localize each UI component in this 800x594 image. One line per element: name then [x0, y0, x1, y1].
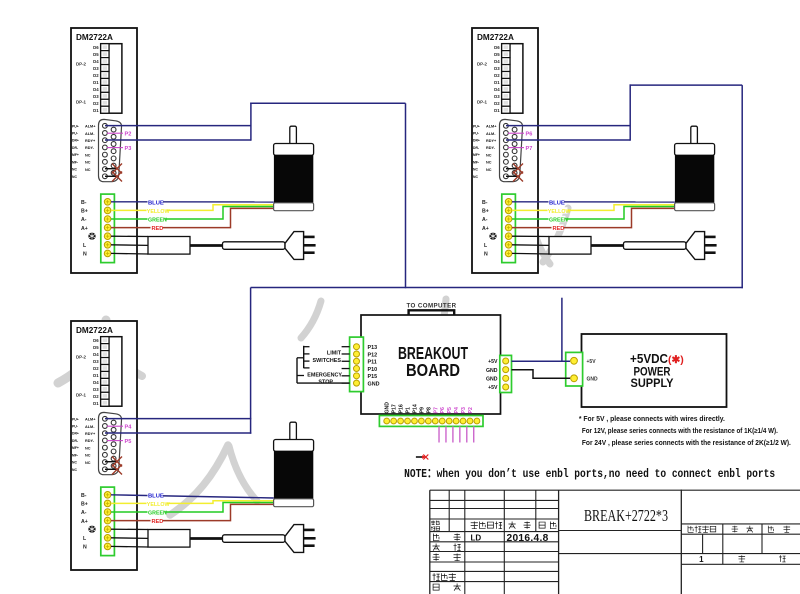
svg-text:D6: D6	[494, 45, 500, 50]
svg-text:NC: NC	[486, 168, 492, 172]
svg-text:P9: P9	[419, 407, 425, 413]
mains connector block of U1	[148, 237, 190, 255]
svg-text:DR+: DR+	[72, 139, 79, 143]
svg-text:LD: LD	[471, 534, 482, 543]
svg-text:GND: GND	[486, 377, 498, 383]
wire label GREEN of U2	[549, 216, 569, 224]
wire U1 P3 to node A	[105, 139, 251, 141]
wire node B riser	[629, 84, 631, 140]
svg-text:DP-1: DP-1	[477, 100, 488, 105]
svg-text:+5VDC(✱): +5VDC(✱)	[630, 352, 684, 366]
wire B- blue to motor M3	[111, 495, 274, 498]
svg-text:D3: D3	[494, 66, 500, 71]
svg-text:NC: NC	[85, 161, 91, 165]
svg-text:N: N	[83, 545, 87, 551]
plug P2 prong 1	[705, 236, 716, 239]
svg-text:BOARD: BOARD	[406, 360, 460, 380]
svg-text:RED: RED	[553, 226, 565, 232]
wire U1 P1 to node A	[105, 125, 251, 127]
svg-text:D4: D4	[494, 59, 500, 64]
terminal screws of TB2	[505, 199, 512, 257]
svg-text:RED: RED	[152, 226, 164, 232]
earth ground symbol of U3	[88, 526, 95, 533]
svg-text:GND: GND	[385, 402, 391, 414]
wire B- blue to motor M2	[512, 201, 675, 203]
live wire L to connector of U1	[111, 244, 148, 247]
wire A- green to motor M2	[512, 207, 675, 220]
svg-text:D2: D2	[494, 101, 500, 106]
svg-text:N: N	[83, 252, 87, 258]
wire B+ yellow to motor M3	[111, 501, 274, 504]
cell zhang	[779, 555, 786, 562]
DIP switch block of U3	[101, 337, 122, 407]
svg-text:P11: P11	[368, 360, 377, 366]
svg-text:LIMIT: LIMIT	[327, 351, 342, 357]
svg-text:NC: NC	[85, 153, 91, 157]
earth wire to connector of U3	[111, 528, 148, 530]
power cable thick of U2	[591, 244, 624, 247]
jumper wire pin8 of J2	[506, 175, 518, 177]
svg-text:P2: P2	[468, 407, 474, 413]
svg-text:MF-: MF-	[473, 160, 479, 164]
wire U3 P1 to bus drop	[105, 418, 251, 420]
svg-text:ALM-: ALM-	[85, 132, 95, 136]
J2 right pin column	[512, 127, 517, 175]
svg-text:MF+: MF+	[72, 153, 79, 157]
svg-text:D3: D3	[93, 359, 99, 364]
svg-text:NC: NC	[85, 461, 91, 465]
svg-text:DM2722A: DM2722A	[477, 33, 514, 42]
wire main bus horizontal	[251, 287, 743, 289]
wire stub P2 of U1	[107, 132, 123, 134]
power cable sleeve of U3	[223, 535, 286, 543]
wire label GREEN of U3	[148, 509, 168, 517]
svg-text:RDY+: RDY+	[85, 139, 96, 143]
signal labels ALM/RDY of U1	[85, 125, 96, 172]
row pi zhun	[433, 584, 461, 591]
header bi li	[768, 526, 790, 533]
supply screw GND	[571, 375, 578, 382]
svg-text:MF-: MF-	[72, 453, 78, 457]
wire node B top run	[630, 84, 743, 86]
svg-text:P7: P7	[433, 407, 439, 413]
wire label YELLOW of U3	[147, 500, 170, 508]
svg-text:NC: NC	[486, 153, 492, 157]
svg-text:P12: P12	[368, 352, 378, 358]
wire B- blue to motor M1	[111, 201, 274, 203]
cross-out mark X2 on J3	[112, 465, 122, 475]
svg-text:NC: NC	[473, 168, 478, 172]
mains plug P3 body	[285, 525, 304, 553]
mains connector block of U3	[148, 530, 190, 548]
svg-text:PU-: PU-	[473, 132, 479, 136]
svg-text:NC: NC	[85, 454, 91, 458]
svg-text:P4: P4	[125, 425, 133, 431]
svg-text:D1: D1	[494, 80, 500, 85]
svg-text:DR-: DR-	[72, 146, 78, 150]
signal labels ALM/RDY of U3	[85, 418, 96, 465]
svg-text:RDY-: RDY-	[85, 146, 95, 150]
svg-text:DR+: DR+	[72, 432, 79, 436]
svg-text:A+: A+	[81, 226, 88, 232]
header geng gai dan hao	[471, 522, 502, 529]
header zhong liang	[732, 526, 754, 533]
svg-text:For 24V , please series connec: For 24V , please series connects with th…	[582, 440, 791, 447]
driver U1 DM2722A outer box	[71, 28, 137, 273]
wire label BLUE of U3	[148, 492, 164, 500]
stepper motor M3 body	[274, 451, 313, 499]
row shen he	[433, 544, 461, 551]
svg-text:GND: GND	[486, 368, 498, 374]
wire label GREEN of U1	[148, 216, 168, 224]
svg-text:BLUE: BLUE	[549, 200, 565, 206]
J1 right pin column	[111, 127, 116, 175]
svg-text:D1: D1	[494, 108, 500, 113]
decor	[229, 446, 257, 501]
switch common bus wire	[297, 358, 304, 383]
wire label RED of U2	[552, 224, 565, 232]
svg-text:DP-2: DP-2	[477, 62, 488, 67]
svg-text:P10: P10	[368, 367, 378, 373]
wire A+ red to motor M2	[512, 208, 675, 227]
wire A+ red to motor M1	[111, 208, 274, 227]
row biao zhun hua	[433, 573, 456, 580]
wire +5V board to supply	[512, 360, 571, 362]
wire A- green to motor M1	[111, 207, 274, 220]
svg-text:D4: D4	[93, 59, 99, 64]
power supply terminal	[566, 352, 583, 386]
terminal screws of TB1	[104, 199, 111, 257]
svg-text:D2: D2	[494, 73, 500, 78]
live wire L to connector of U3	[111, 537, 148, 540]
svg-text:GREEN: GREEN	[148, 511, 167, 517]
svg-text:RED: RED	[152, 519, 164, 525]
svg-text:YELLOW: YELLOW	[147, 502, 170, 508]
decor	[530, 212, 550, 264]
svg-text:P14: P14	[412, 404, 418, 413]
svg-text:P2: P2	[125, 132, 132, 138]
live wire L to connector of U2	[512, 244, 549, 247]
signal labels PU/DR/MF of U2	[473, 124, 480, 178]
svg-text:P13: P13	[368, 345, 378, 351]
svg-text:2016.4.8: 2016.4.8	[507, 533, 549, 544]
supply screw +5V	[571, 357, 578, 364]
svg-text:DP-2: DP-2	[76, 355, 87, 360]
svg-text:BREAK+2722*3: BREAK+2722*3	[584, 506, 668, 525]
wire label BLUE of U1	[148, 199, 164, 207]
svg-text:1: 1	[699, 555, 704, 564]
svg-text:D5: D5	[93, 52, 99, 57]
svg-text:MF+: MF+	[473, 153, 480, 157]
wire GND board to supply	[512, 370, 571, 379]
cell gong	[739, 555, 746, 562]
svg-text:D3: D3	[93, 66, 99, 71]
svg-text:D1: D1	[93, 373, 99, 378]
decor	[58, 320, 106, 383]
svg-text:PU-: PU-	[72, 425, 78, 429]
jumper wire pin7 of J3	[105, 461, 117, 463]
stepper motor M2 top flange	[675, 144, 715, 156]
svg-text:B-: B-	[81, 200, 87, 206]
svg-text:NC: NC	[72, 468, 77, 472]
row she ji	[433, 534, 460, 541]
earth wire to connector of U1	[111, 235, 148, 237]
wire stub P7 of U2	[508, 147, 524, 149]
svg-text:NC: NC	[473, 175, 478, 179]
wire stub P4 of U3	[107, 425, 123, 427]
svg-text:D4: D4	[494, 87, 500, 92]
svg-text:D6: D6	[93, 45, 99, 50]
svg-text:BLUE: BLUE	[148, 200, 164, 206]
stepper motor M1 body	[274, 155, 313, 203]
svg-text:RDY-: RDY-	[85, 439, 95, 443]
svg-text:RDY+: RDY+	[85, 432, 96, 436]
svg-text:P5: P5	[125, 439, 132, 445]
decor	[301, 301, 321, 338]
DB15 connector J1 of U1	[99, 119, 122, 181]
svg-text:+5V: +5V	[488, 385, 498, 391]
parallel port connector to computer	[409, 310, 455, 315]
ground return wire	[297, 382, 350, 384]
wire U2 P1 to node B	[506, 125, 630, 127]
stepper motor M1 bottom flange	[274, 203, 314, 211]
input pin stub wires	[342, 347, 350, 383]
svg-text:P16: P16	[399, 404, 405, 413]
svg-text:P1: P1	[406, 407, 412, 413]
svg-text:N: N	[484, 252, 488, 258]
signal labels ALM/RDY of U2	[486, 125, 497, 172]
svg-text:PU-: PU-	[72, 132, 78, 136]
DIP position labels of U1	[93, 45, 99, 113]
svg-text:DP-1: DP-1	[76, 100, 87, 105]
svg-text:P6: P6	[526, 132, 533, 138]
svg-text:DR+: DR+	[473, 139, 480, 143]
header ri qi	[539, 522, 556, 529]
svg-text:DP-2: DP-2	[76, 62, 87, 67]
wire label RED of U3	[151, 517, 164, 525]
svg-text:D4: D4	[93, 352, 99, 357]
stepper motor M1 shaft	[290, 126, 297, 144]
svg-text:P4: P4	[454, 407, 460, 413]
svg-text:ALM+: ALM+	[85, 418, 96, 422]
stepper motor M3 bottom flange	[274, 499, 314, 507]
power cable thick of U1	[190, 244, 223, 247]
mains plug P2 body	[686, 232, 705, 260]
svg-text:D3: D3	[93, 387, 99, 392]
svg-text:MF-: MF-	[72, 160, 78, 164]
wire U3 P3 to bus drop	[105, 432, 251, 434]
svg-text:A-: A-	[482, 217, 488, 223]
svg-text:DM2722A: DM2722A	[76, 326, 113, 335]
terminal screws of TB3	[104, 492, 111, 550]
wire U2 P3 to node B	[506, 139, 630, 141]
svg-text:RDY+: RDY+	[486, 139, 497, 143]
svg-text:DR-: DR-	[473, 146, 479, 150]
driver U3 DM2722A outer box	[71, 321, 137, 570]
board power terminal screws	[503, 358, 509, 390]
plug P2 prong 3	[705, 251, 716, 254]
earth wire to connector of U2	[512, 235, 549, 237]
driver U2 DM2722A outer box	[472, 28, 538, 273]
wire B+ yellow to motor M1	[111, 205, 274, 211]
output wires P7..P2 magenta	[439, 426, 474, 442]
wire A+ red to motor M3	[111, 504, 274, 520]
header tiny geng gai biao ji	[431, 521, 440, 531]
decor	[106, 320, 142, 376]
cross-out mark X2 on J1	[112, 172, 122, 182]
svg-text:ALM+: ALM+	[486, 125, 497, 129]
signal labels PU/DR/MF of U3	[72, 417, 79, 471]
svg-text:D2: D2	[93, 366, 99, 371]
DIP switch block of U2	[502, 44, 523, 114]
svg-text:B-: B-	[81, 493, 87, 499]
wire label BLUE of U2	[549, 199, 565, 207]
signal labels PU/DR/MF of U1	[72, 124, 79, 178]
neutral wire N to connector of U3	[111, 545, 148, 548]
svg-text:NC: NC	[486, 161, 492, 165]
J2 left pin column	[504, 123, 509, 178]
terminal block TB2 of U2	[502, 194, 516, 263]
jumper wire pin8 of J3	[105, 468, 117, 470]
plug P1 prong 2	[304, 244, 316, 247]
svg-text:ALM+: ALM+	[85, 125, 96, 129]
power supply PS1 box	[582, 334, 727, 407]
mains plug P1 body	[285, 232, 304, 260]
header ling jian biao ji	[688, 526, 716, 533]
svg-text:+5V: +5V	[587, 359, 597, 365]
svg-text:A-: A-	[81, 217, 87, 223]
input terminal block TB-L	[350, 337, 364, 392]
svg-text:A+: A+	[482, 226, 489, 232]
earth ground symbol of U1	[88, 233, 95, 240]
terminal block TB1 of U1	[101, 194, 115, 263]
svg-text:B+: B+	[81, 209, 88, 215]
decor	[170, 445, 228, 515]
svg-text:A+: A+	[81, 519, 88, 525]
wire node A riser	[250, 103, 252, 141]
plug P3 prong 3	[304, 544, 315, 547]
svg-text:D2: D2	[93, 101, 99, 106]
svg-text:D1: D1	[93, 401, 99, 406]
jumper wire pin8 of J1	[105, 175, 117, 177]
svg-text:P3: P3	[461, 407, 467, 413]
svg-text:P17: P17	[392, 404, 398, 413]
svg-text:D2: D2	[93, 73, 99, 78]
svg-text:D1: D1	[93, 80, 99, 85]
wire bus drop to U3	[250, 288, 252, 434]
svg-text:P15: P15	[368, 374, 378, 380]
svg-text:B+: B+	[482, 209, 489, 215]
breakout board outline	[361, 315, 501, 414]
header qian ming	[509, 522, 531, 529]
svg-text:NC: NC	[85, 168, 91, 172]
plug P2 prong 2	[705, 244, 717, 247]
svg-text:D1: D1	[93, 108, 99, 113]
svg-text:PU+: PU+	[473, 124, 480, 128]
svg-text:NC: NC	[72, 461, 77, 465]
DB15 connector J2 of U2	[500, 119, 523, 181]
svg-text:A-: A-	[81, 510, 87, 516]
cross-out mark X2 on J2	[513, 172, 523, 182]
output terminal screws	[384, 418, 480, 424]
wire stub P5 of U3	[107, 440, 123, 442]
svg-text:POWER: POWER	[634, 367, 672, 379]
wire stub P3 of U1	[107, 147, 123, 149]
svg-text:NC: NC	[72, 168, 77, 172]
svg-text:+5V: +5V	[488, 359, 498, 365]
board power terminal TB-R	[500, 355, 512, 392]
output pin labels GND..P2	[385, 402, 474, 414]
wire label YELLOW of U2	[548, 207, 571, 215]
terminal block TB3 of U3	[101, 487, 115, 555]
cross-out mark X1 on J3	[112, 457, 122, 467]
plug P1 prong 1	[304, 236, 315, 239]
wire right drop to bus	[741, 85, 743, 288]
wire node A top run	[250, 102, 405, 104]
enbl arrow mark	[416, 455, 428, 460]
J1 left pin column	[103, 123, 108, 178]
svg-text:SUPPLY: SUPPLY	[631, 378, 674, 390]
stepper motor M2 shaft	[691, 126, 698, 144]
svg-text:PU+: PU+	[72, 124, 79, 128]
wire +5V feed drop	[561, 298, 563, 362]
DB15 connector J3 of U3	[99, 412, 122, 474]
svg-text:For 12V, please series connect: For 12V, please series connects with the…	[582, 428, 778, 435]
decor	[543, 208, 568, 262]
svg-text:PU+: PU+	[72, 417, 79, 421]
svg-text:GND: GND	[587, 377, 599, 383]
decor	[442, 299, 446, 336]
svg-text:P3: P3	[125, 146, 132, 152]
wire label YELLOW of U1	[147, 207, 170, 215]
svg-text:EMERGENCY: EMERGENCY	[307, 372, 342, 378]
svg-text:D3: D3	[494, 94, 500, 99]
power cable sleeve of U1	[223, 242, 286, 250]
title block grid	[430, 490, 800, 594]
J3 right pin column	[111, 420, 116, 468]
svg-text:* For 5V , please connects wit: * For 5V , please connects with wires di…	[579, 416, 725, 423]
svg-text:DM2722A: DM2722A	[76, 33, 113, 42]
svg-text:YELLOW: YELLOW	[548, 209, 571, 215]
svg-text:NC: NC	[85, 446, 91, 450]
svg-text:D6: D6	[93, 338, 99, 343]
limit switch common bar	[304, 346, 310, 368]
svg-text:D5: D5	[93, 345, 99, 350]
svg-text:P5: P5	[447, 407, 453, 413]
svg-text:D4: D4	[93, 380, 99, 385]
emergency stop contact stub	[297, 375, 304, 377]
svg-text:MF+: MF+	[72, 446, 79, 450]
neutral wire N to connector of U2	[512, 252, 549, 255]
stepper motor M3 top flange	[274, 440, 314, 452]
DIP switch block of U1	[101, 44, 122, 114]
svg-text:D4: D4	[93, 87, 99, 92]
jumper wire pin7 of J2	[506, 168, 518, 170]
svg-text:D3: D3	[93, 94, 99, 99]
svg-text:D2: D2	[93, 394, 99, 399]
wire left drop to bus	[405, 103, 407, 288]
DIP position labels of U3	[93, 338, 99, 406]
wire B+ yellow to motor M2	[512, 205, 675, 211]
svg-text:GREEN: GREEN	[148, 218, 167, 224]
plug P3 prong 1	[304, 529, 315, 532]
earth ground symbol of U2	[489, 233, 496, 240]
wire A- green to motor M3	[111, 503, 274, 513]
plug P3 prong 2	[304, 537, 316, 540]
row gong yi	[433, 554, 461, 561]
DIP position labels of U2	[494, 45, 500, 113]
power cable sleeve of U2	[624, 242, 687, 250]
